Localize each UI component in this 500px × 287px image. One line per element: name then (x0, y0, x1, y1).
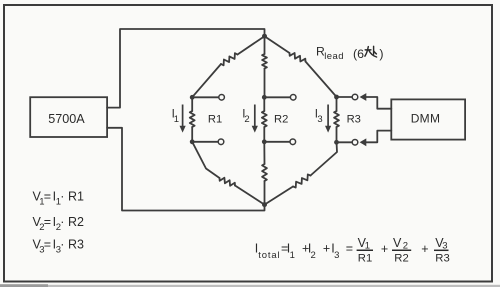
node R3 top (334, 95, 339, 100)
svg-text:3: 3 (334, 250, 339, 261)
svg-text:2: 2 (311, 250, 316, 261)
terminal R3 bottom sense (352, 140, 358, 146)
node R3 bottom (334, 140, 339, 145)
svg-text:total: total (258, 250, 280, 261)
svg-text:2: 2 (244, 114, 249, 125)
svg-text:=: = (44, 238, 51, 252)
wire R2 top sense stub (264, 96, 290, 98)
resistor Rlead top-left (192, 36, 264, 97)
resistor Rlead top-right (265, 36, 337, 97)
DMM sense arrow top (360, 93, 392, 109)
terminal R2 bottom sense (290, 139, 296, 145)
svg-text:=: = (346, 241, 353, 255)
node R1 bottom (190, 139, 195, 144)
svg-text:DMM: DMM (411, 112, 441, 126)
current arrow I3 (325, 105, 331, 133)
svg-text:): ) (379, 47, 383, 61)
DMM sense arrow bottom (360, 131, 392, 147)
svg-text:R2: R2 (394, 252, 408, 264)
svg-text:R1: R1 (68, 190, 84, 204)
wire 5700A HI output to top node (107, 29, 264, 108)
wire R1 top sense stub (192, 96, 219, 98)
resistor Rlead bottom-right (265, 142, 338, 205)
equation V2=I2*R2 (33, 215, 85, 233)
svg-text:+: + (381, 242, 388, 256)
svg-text:3: 3 (317, 114, 322, 125)
resistor Rlead top-middle (262, 36, 267, 97)
calibrator 5700A (30, 97, 107, 137)
svg-text:R2: R2 (274, 113, 288, 125)
svg-text:=: = (44, 215, 51, 229)
wire R1 bottom sense stub (192, 141, 218, 143)
terminal R1 bottom sense (218, 139, 224, 145)
svg-text:lead: lead (324, 51, 344, 62)
label I3 (315, 108, 323, 126)
resistor R1 (190, 97, 195, 142)
node R1 top (190, 95, 195, 100)
current arrow I2 (252, 105, 258, 133)
svg-text:R3: R3 (435, 252, 449, 264)
wire R2 bottom sense stub (264, 141, 290, 143)
svg-text:+: + (421, 242, 428, 256)
svg-text:(6: (6 (353, 47, 364, 61)
terminal R2 top sense (290, 95, 296, 101)
label I1 (172, 108, 179, 126)
equation V1=I1*R1 (33, 190, 85, 208)
node R2 bottom (262, 139, 267, 144)
svg-text:R3: R3 (347, 113, 361, 125)
resistor R2 (262, 97, 267, 142)
terminal R3 top sense (352, 94, 358, 100)
resistor Rlead bottom-middle (262, 142, 267, 205)
svg-text:R1: R1 (208, 113, 222, 125)
terminal R1 top sense (219, 95, 225, 101)
resistor R3 (334, 97, 339, 142)
svg-text:1: 1 (174, 114, 179, 125)
svg-text:+: + (323, 241, 330, 255)
label Rlead (6 places) (316, 44, 384, 62)
svg-text:=: = (44, 190, 51, 204)
wire R3 top sense stub (337, 96, 353, 98)
svg-text:5700A: 5700A (48, 112, 85, 126)
wire R3 bottom sense stub (337, 141, 353, 143)
node top junction (262, 34, 267, 39)
svg-text:R1: R1 (358, 252, 372, 264)
svg-text:R3: R3 (68, 238, 84, 252)
svg-text:1: 1 (290, 250, 295, 261)
DMM meter box (391, 99, 465, 139)
wire 5700A LO output to bottom node (107, 128, 264, 211)
node bottom junction (262, 202, 267, 207)
label I2 (242, 108, 249, 126)
node R2 top (262, 95, 267, 100)
svg-text:R2: R2 (68, 215, 84, 229)
svg-text:·: · (60, 238, 64, 252)
equation V3=I3*R3 (33, 238, 85, 256)
resistor Rlead bottom-left (192, 142, 264, 205)
svg-text:·: · (60, 190, 64, 204)
equation Itotal = I1+I2+I3 = V1/R1 + V2/R2 + V3/R3 (255, 236, 450, 264)
svg-text:V: V (393, 236, 402, 250)
current arrow I1 (180, 105, 186, 133)
svg-text:·: · (60, 215, 64, 229)
